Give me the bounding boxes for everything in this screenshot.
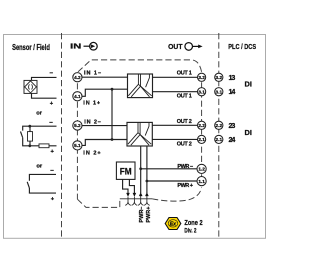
- svg-text:3.1: 3.1: [216, 89, 223, 94]
- svg-text:4.2: 4.2: [74, 75, 81, 80]
- svg-text:+: +: [50, 101, 54, 107]
- svg-text:OUT 2: OUT 2: [177, 142, 192, 148]
- svg-text:4.1: 4.1: [74, 94, 81, 99]
- svg-text:IN: IN: [70, 42, 81, 51]
- svg-text:IN 1+: IN 1+: [83, 101, 100, 107]
- svg-text:Zone 2: Zone 2: [184, 220, 202, 227]
- svg-text:or: or: [36, 110, 43, 116]
- svg-text:OUT 2: OUT 2: [177, 119, 192, 125]
- svg-text:13: 13: [229, 74, 236, 82]
- svg-text:OUT 1: OUT 1: [177, 93, 192, 99]
- svg-text:3.2: 3.2: [198, 75, 205, 80]
- svg-text:DI: DI: [245, 79, 252, 88]
- svg-text:DI: DI: [245, 128, 252, 137]
- svg-text:–: –: [50, 70, 54, 77]
- svg-text:3.1: 3.1: [198, 89, 205, 94]
- svg-text:FM: FM: [120, 167, 132, 177]
- svg-text:1.1: 1.1: [198, 179, 205, 184]
- svg-text:2.2: 2.2: [198, 123, 205, 128]
- svg-text:23: 23: [229, 122, 236, 130]
- svg-text:Sensor / Field: Sensor / Field: [12, 43, 50, 52]
- svg-text:PWR–: PWR–: [139, 206, 145, 222]
- svg-text:2.1: 2.1: [216, 137, 223, 142]
- svg-text:–: –: [49, 119, 53, 126]
- svg-text:14: 14: [229, 88, 236, 96]
- svg-text:IN 2+: IN 2+: [83, 151, 100, 157]
- svg-text:2.1: 2.1: [198, 137, 205, 142]
- svg-text:–: –: [50, 167, 54, 174]
- svg-text:PLC / DCS: PLC / DCS: [228, 42, 256, 51]
- svg-text:5.2: 5.2: [74, 123, 81, 128]
- svg-text:3.2: 3.2: [216, 75, 223, 80]
- svg-text:2.2: 2.2: [216, 123, 223, 128]
- svg-text:or: or: [36, 164, 43, 170]
- svg-text:PWR –: PWR –: [177, 164, 193, 170]
- svg-text:PWR+: PWR+: [146, 207, 152, 223]
- svg-text:1.2: 1.2: [198, 167, 205, 172]
- svg-text:Div. 2: Div. 2: [184, 228, 197, 234]
- svg-text:Ex: Ex: [170, 221, 177, 227]
- svg-text:IN 1–: IN 1–: [84, 70, 101, 76]
- svg-text:OUT 1: OUT 1: [177, 70, 192, 76]
- svg-text:IN 2–: IN 2–: [84, 119, 101, 125]
- svg-text:OUT: OUT: [168, 42, 183, 51]
- svg-text:5.1: 5.1: [74, 143, 81, 148]
- svg-text:24: 24: [229, 136, 236, 144]
- svg-text:PWR +: PWR +: [177, 183, 193, 189]
